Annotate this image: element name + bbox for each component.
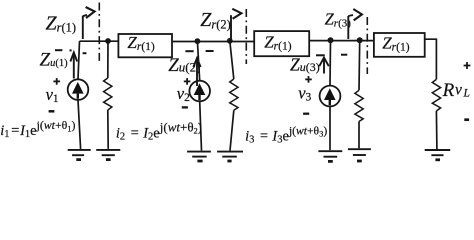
wire below R (435, 111, 438, 149)
label Zr(1) top-left (46, 12, 77, 34)
impedance box Zr(1) #4 (374, 33, 425, 57)
Zu(2) up arrow (193, 58, 200, 86)
label + of vL (464, 62, 471, 69)
node dot D3 (227, 38, 233, 44)
svg-text:i1=I1ej(wt+θ1): i1=I1ej(wt+θ1) (0, 118, 75, 140)
wire left rail down to source 1 (78, 41, 80, 79)
wire below resistor 3 (358, 122, 360, 149)
wire source-2 rail (197, 41, 199, 80)
wire below resistor 2 (230, 110, 234, 150)
label + of v3 (305, 76, 312, 83)
formula i3 (245, 125, 327, 146)
ground G1 (68, 150, 91, 160)
ground G3 (187, 152, 211, 161)
wire resistor-3 rail (358, 40, 361, 90)
svg-text:Zu(2): Zu(2) (168, 55, 200, 76)
node dot D2 (195, 38, 201, 44)
wire top bus section1 (80, 40, 119, 42)
label + of v1 (53, 78, 60, 85)
dash-dot cut line 1 (98, 3, 100, 63)
ground G2 (96, 150, 120, 160)
wire below source 1 (78, 100, 81, 149)
svg-text:Zr(2): Zr(2) (200, 9, 231, 31)
label Zu(1) (40, 49, 69, 70)
Zu(3) up arrow (319, 58, 329, 74)
wire resistor-1 rail (107, 41, 109, 78)
formula i2 (116, 120, 202, 143)
label Zr(1) in box 4 (382, 34, 410, 54)
current source I1 arrow (72, 82, 84, 99)
label + of v2 (184, 78, 191, 85)
wire bus box1 to box2 (172, 41, 254, 43)
current source I3 arrow (324, 88, 336, 105)
Zu(1) up arrow (70, 53, 77, 79)
label - of v3 (303, 113, 309, 115)
wire resistor-2 rail (230, 41, 234, 79)
svg-text:v1: v1 (46, 85, 59, 105)
label Zr(1) in box 2 (264, 33, 292, 53)
label - of v2 (182, 106, 188, 108)
ground G5 (318, 151, 342, 161)
dash-dot cut line 2 (245, 9, 247, 64)
label Zr(3) (325, 10, 352, 30)
label v1 (46, 85, 59, 105)
label vL (455, 82, 470, 100)
ground G7 (425, 150, 451, 160)
wire source-3 rail (329, 40, 332, 85)
svg-text:i3 = I3ej(wt+θ3): i3 = I3ej(wt+θ3) (245, 125, 327, 146)
arrow for Zr(2) (231, 9, 241, 39)
svg-text:Zr(1): Zr(1) (127, 33, 155, 53)
impedance box Zr(1) #1 (118, 34, 172, 57)
wire bus box2 to box4 (309, 40, 374, 42)
wire below source 3 (329, 106, 331, 150)
Zu(2) cut marks (185, 50, 213, 52)
impedance box Zr(1) #2 (254, 31, 309, 56)
current source I2 circle (189, 81, 210, 102)
svg-text:R: R (442, 80, 455, 101)
svg-text:i2 = I2ej(wt+θ2): i2 = I2ej(wt+θ2) (116, 120, 202, 143)
current source I3 circle (320, 86, 341, 107)
resistor Zu3 zigzag (355, 90, 363, 121)
label - of v1 (49, 110, 55, 113)
label Zu(3) (290, 54, 320, 74)
node dot D5 (357, 37, 363, 43)
resistor Zu2 zigzag (230, 79, 238, 110)
wire below resistor 1 (107, 110, 109, 149)
label Zr(2) (200, 9, 231, 31)
node dot D1 (105, 38, 111, 44)
dash-dot cut line 3 (366, 17, 368, 74)
svg-text:v3: v3 (298, 84, 311, 104)
label v2 (177, 84, 190, 104)
svg-text:Zu(3): Zu(3) (290, 54, 320, 74)
resistor Zu1 zigzag (104, 78, 112, 110)
resistor R zigzag (432, 79, 440, 111)
formula i1 (0, 118, 75, 140)
label R (442, 80, 455, 101)
svg-text:Zr(3): Zr(3) (325, 10, 352, 30)
Zu(3) cut marks (316, 54, 347, 57)
wire box4 to load corner (425, 39, 437, 79)
current source I2 arrow (194, 83, 206, 100)
svg-text:v2: v2 (177, 84, 190, 104)
svg-text:Zu(1): Zu(1) (40, 49, 69, 70)
current source I1 circle (68, 79, 89, 100)
ground G4 (217, 152, 243, 161)
label Zr(1) in box 1 (127, 33, 155, 53)
ground G6 (348, 149, 371, 161)
label Zu(2) (168, 55, 200, 76)
node dot D4 (328, 37, 334, 43)
svg-text:Zr(1): Zr(1) (264, 33, 292, 53)
svg-text:Zr(1): Zr(1) (382, 34, 410, 54)
Zu(1) cut marks: dash dot (55, 50, 86, 53)
arrow for Zr(1) pointing right (83, 7, 95, 39)
label v3 (298, 84, 311, 104)
label - of vL (464, 118, 469, 121)
svg-text:vL: vL (455, 82, 470, 100)
arrow for Zr(3) (348, 9, 362, 39)
svg-text:Zr(1): Zr(1) (46, 12, 77, 34)
wire below source 2 (200, 101, 202, 150)
